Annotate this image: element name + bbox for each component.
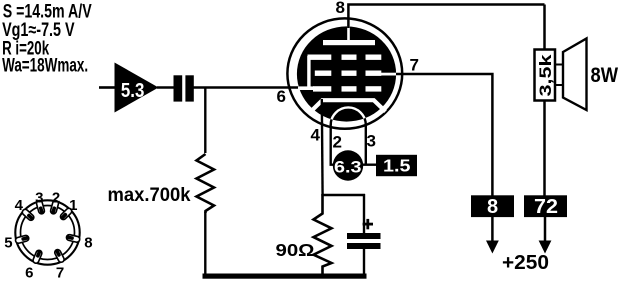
socket pin 7 xyxy=(54,249,65,264)
arrow supply right xyxy=(539,241,552,254)
wire transformer to box 72 xyxy=(543,100,546,196)
svg-text:2: 2 xyxy=(52,190,60,207)
socket pin 4 xyxy=(21,208,35,221)
svg-text:7: 7 xyxy=(56,265,64,282)
socket pin 6 xyxy=(32,249,43,264)
svg-text:8W: 8W xyxy=(591,64,619,87)
capacitor lead bottom xyxy=(363,249,365,276)
svg-text:8: 8 xyxy=(84,235,92,252)
output transformer box 3.5k xyxy=(535,50,556,101)
svg-text:8: 8 xyxy=(487,196,498,218)
svg-text:3: 3 xyxy=(367,132,376,151)
heater current box 1.5 xyxy=(376,155,417,176)
svg-text:6.3: 6.3 xyxy=(334,158,362,176)
socket pin 1 xyxy=(59,207,73,221)
screen grid exit white pin7 xyxy=(381,73,397,76)
socket inner circle xyxy=(21,206,75,260)
wire cathode RC top xyxy=(322,194,366,196)
heater wire pin 3 xyxy=(365,124,367,165)
svg-text:4: 4 xyxy=(15,197,24,214)
svg-text:2: 2 xyxy=(333,133,342,152)
capacitor plate top xyxy=(347,233,381,239)
socket pin 2 xyxy=(50,200,59,215)
heater voltage circle 6.3 xyxy=(333,150,363,180)
svg-text:1.5: 1.5 xyxy=(383,156,411,176)
svg-text:90Ω: 90Ω xyxy=(276,240,315,260)
anode dropper box 72 xyxy=(524,195,567,217)
wire heater circle to box xyxy=(362,163,377,165)
grid side rail white xyxy=(307,56,310,90)
wire capacitor to tube grid pin 6 xyxy=(194,86,301,89)
svg-text:Wa=18Wmax.: Wa=18Wmax. xyxy=(2,55,88,76)
svg-text:8: 8 xyxy=(336,0,345,17)
grid dashes row2 xyxy=(315,71,332,76)
speaker stubs xyxy=(555,64,564,66)
cathode wire pin 4 xyxy=(321,99,324,196)
capacitor plate bottom xyxy=(347,243,381,249)
grid dashes row3 xyxy=(313,86,331,91)
anode bar xyxy=(323,40,375,45)
wire resistor to ground rail xyxy=(204,212,206,277)
wire anode to top rail pin 8 xyxy=(348,5,544,29)
ground rail xyxy=(203,274,367,279)
capacitor cathode bypass lead top xyxy=(363,194,365,234)
resistor max.700k xyxy=(197,154,215,213)
svg-text:5.3: 5.3 xyxy=(121,80,144,102)
capacitor coupling xyxy=(174,75,183,101)
svg-text:4: 4 xyxy=(311,126,321,145)
cathode band xyxy=(311,100,386,111)
screen dropper box 8 xyxy=(471,195,514,217)
wire input stub xyxy=(99,86,115,89)
wire junction drop to grid resistor xyxy=(204,88,206,154)
capacitor plus sign xyxy=(363,223,373,226)
wire screen pin 7 to supply xyxy=(396,74,492,196)
anode lead white xyxy=(347,25,350,41)
svg-text:7: 7 xyxy=(410,56,419,75)
wire below box 8 xyxy=(491,217,494,242)
svg-text:5: 5 xyxy=(4,235,12,252)
heater arc black part xyxy=(331,107,366,125)
wire below box 72 xyxy=(544,217,547,242)
socket pin 8 xyxy=(66,234,80,243)
svg-text:6: 6 xyxy=(25,265,33,282)
socket pin 5 xyxy=(15,235,30,244)
grid dashes row1 xyxy=(308,55,332,60)
svg-text:3,5k: 3,5k xyxy=(536,54,555,97)
svg-text:6: 6 xyxy=(277,87,286,106)
arrow supply left xyxy=(486,241,499,254)
svg-text:+250: +250 xyxy=(502,251,549,274)
tube envelope circle xyxy=(287,18,402,128)
tube electrode system black disc xyxy=(297,26,396,121)
svg-text:72: 72 xyxy=(534,196,558,218)
input amplifier triangle 5.3 xyxy=(115,63,159,113)
resistor 90ohm xyxy=(314,194,332,276)
svg-text:3: 3 xyxy=(35,190,43,207)
svg-text:1: 1 xyxy=(69,197,77,214)
speaker cone xyxy=(563,39,587,111)
socket pin 3 xyxy=(36,200,45,215)
wire triangle to capacitor xyxy=(157,86,175,89)
heater wire pin 2 xyxy=(331,124,335,165)
grid exit white pin6 xyxy=(298,86,314,90)
heater arc white part xyxy=(331,107,366,125)
socket outer circle xyxy=(15,200,79,264)
svg-text:max.700k: max.700k xyxy=(108,185,191,206)
wire top rail down to transformer xyxy=(543,5,546,51)
